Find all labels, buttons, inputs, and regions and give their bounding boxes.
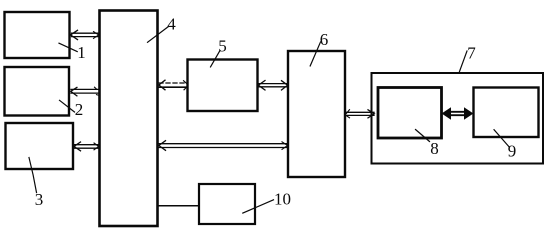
wire 5-6 double line	[259, 84, 288, 87]
arrowhead at block7 end	[368, 110, 374, 118]
block 10	[199, 184, 255, 224]
arrowhead at block5 end (ticks)	[184, 81, 187, 90]
arrowhead at block6 end	[282, 142, 288, 150]
block 8	[378, 88, 442, 139]
svg-text:1: 1	[77, 43, 86, 62]
block 1	[5, 12, 70, 58]
leader line for label 7	[460, 51, 468, 72]
svg-text:3: 3	[35, 190, 44, 209]
svg-text:4: 4	[167, 15, 176, 34]
svg-text:8: 8	[430, 139, 439, 158]
leader line for label 9	[494, 130, 509, 147]
block 9	[474, 88, 539, 138]
filled arrowhead at block8 end	[443, 108, 451, 119]
block 7 outer	[372, 73, 544, 164]
block 6	[288, 51, 345, 177]
leader line for label 8	[416, 130, 430, 142]
block 4	[100, 11, 158, 227]
svg-text:10: 10	[274, 190, 291, 209]
leader line for label 3	[29, 158, 37, 193]
wire 1-4 double line	[72, 33, 99, 36]
wire 4-6 long double line	[159, 144, 288, 148]
wire 6-7 double line	[346, 112, 374, 115]
wire 3-4 double line	[75, 145, 99, 149]
wire 8-9 bold double arrow	[447, 112, 468, 115]
arrowhead at block4 end (ticks)	[95, 87, 99, 95]
arrowhead at block6 end (ticks)	[346, 110, 349, 118]
block 2	[5, 67, 70, 116]
arrowhead at block4 end	[159, 141, 166, 151]
wire 2-4 double line	[71, 89, 99, 93]
leader line for label 1	[59, 43, 77, 51]
arrowhead at block3 end	[74, 142, 81, 151]
leader line for label 10	[243, 200, 274, 213]
svg-text:6: 6	[320, 30, 329, 49]
svg-text:5: 5	[218, 37, 227, 56]
svg-text:2: 2	[75, 100, 84, 119]
svg-text:9: 9	[508, 142, 517, 161]
arrowhead at block4 end	[94, 32, 99, 39]
filled arrowhead at block9 end	[465, 108, 473, 119]
arrowhead at block2 end	[71, 87, 77, 96]
leader line for label 5	[211, 51, 221, 67]
leader line for label 6	[310, 42, 320, 66]
arrowhead at block4 end	[159, 80, 165, 90]
arrowhead at block6 end	[282, 81, 288, 90]
svg-text:7: 7	[467, 44, 476, 63]
arrowhead at block4 end	[94, 143, 99, 150]
block 3	[6, 123, 74, 169]
leader line for label 2	[60, 100, 75, 112]
wire 4-10 single line	[159, 205, 199, 207]
arrowhead at block1 end	[71, 30, 78, 39]
leader line for label 4	[148, 27, 169, 43]
wire 4-5 double line	[159, 83, 187, 87]
arrowhead at block5 end	[258, 81, 265, 91]
block 5	[188, 60, 258, 112]
